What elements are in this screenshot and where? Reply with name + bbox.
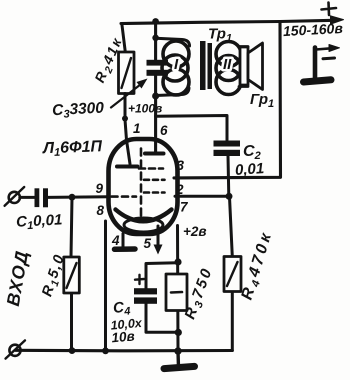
pentode g3 dashes: [139, 167, 163, 170]
node dot pin2/C2/R4: [226, 193, 233, 200]
wire trunk C3 to pin6: [154, 76, 157, 152]
node dot rail cathode wire: [102, 347, 109, 354]
capacitor C4 top lead: [146, 263, 178, 288]
wire pin2 line: [175, 195, 229, 198]
wire top supply rail: [121, 20, 334, 23]
svg-text:9: 9: [96, 181, 104, 196]
wire bottom ground rail: [16, 349, 233, 353]
node dot primary top: [152, 35, 159, 42]
node dot rail R3: [174, 347, 181, 354]
tube envelope: [109, 139, 178, 234]
transformer core: [200, 41, 206, 90]
svg-text:8: 8: [97, 203, 105, 218]
svg-text:1: 1: [133, 121, 141, 136]
ground symbol: [164, 351, 195, 369]
svg-text:+2в: +2в: [183, 224, 207, 239]
capacitor C4 plates: [134, 288, 157, 294]
capacitor C4 bottom lead: [146, 304, 178, 333]
triode grid dashes: [112, 195, 137, 198]
node dot pin7/R3/C4 top: [174, 258, 181, 265]
svg-text:2: 2: [175, 182, 184, 197]
resistor R1: [64, 197, 80, 350]
battery connector symbol: [304, 45, 340, 83]
input terminal top: [5, 187, 25, 206]
wire primary top tap: [156, 38, 190, 46]
wire terminal to C1: [20, 196, 35, 199]
svg-text:+100в: +100в: [128, 102, 162, 116]
resistor R3 750: [166, 274, 187, 311]
pin1 lead: [125, 120, 130, 165]
svg-text:10в: 10в: [111, 328, 135, 345]
node R2/pin1 junction: [122, 116, 128, 122]
node dot supply/trunk: [152, 18, 159, 25]
svg-text:6: 6: [160, 123, 168, 138]
internal shield dashes: [140, 149, 143, 218]
resistor R2 41k: [119, 24, 135, 120]
wire secondary to speaker: [239, 47, 248, 87]
transformer secondary winding II: [216, 42, 241, 95]
resistor R4 470k: [224, 197, 241, 351]
pentode screen dashes: [144, 179, 165, 182]
cathode arc: [116, 210, 172, 222]
wire screen: right trunk and pin3 line: [174, 22, 281, 178]
wire pin6 node to C2: [156, 116, 227, 141]
supply arrowhead: [331, 16, 344, 24]
input terminal bottom: [6, 340, 26, 358]
pin4 heater ground bar: [115, 246, 136, 252]
wire trunk to C3: [154, 22, 157, 60]
svg-text:5: 5: [144, 236, 152, 251]
node dot rail R1: [69, 347, 76, 354]
heater loop: [124, 218, 163, 232]
plus sign C4: [135, 275, 144, 284]
plus sign supply: [322, 3, 337, 16]
capacitor C3 plates: [147, 60, 169, 66]
capacitor C2 plates: [214, 141, 241, 147]
capacitor C1 plates: [35, 188, 40, 207]
transformer primary winding I: [162, 41, 189, 95]
pentode anode bar: [145, 152, 164, 156]
node dot primary bottom: [152, 93, 159, 100]
node dot grid/R1: [69, 194, 76, 201]
speaker Gr1: [240, 43, 263, 90]
pin4 lead: [122, 234, 125, 247]
svg-text:3: 3: [177, 158, 185, 173]
svg-text:150-160в: 150-160в: [283, 20, 344, 39]
svg-text:4: 4: [111, 233, 120, 248]
pentode control grid dashes: [144, 191, 165, 194]
node dot R3/C4 bottom: [175, 329, 182, 336]
wire cathode pin8 down: [104, 221, 107, 351]
pin5 heater arrow: [157, 226, 160, 247]
wire pin7 trunk down: [176, 226, 180, 351]
svg-text:II: II: [223, 56, 232, 73]
wire C2 bottom to pin2 node: [227, 156, 231, 196]
wire primary bottom tap: [156, 88, 189, 96]
triode anode bar: [117, 165, 138, 169]
wire C1 to pin9: [48, 195, 109, 199]
arrow C3 pointer: [111, 83, 143, 108]
